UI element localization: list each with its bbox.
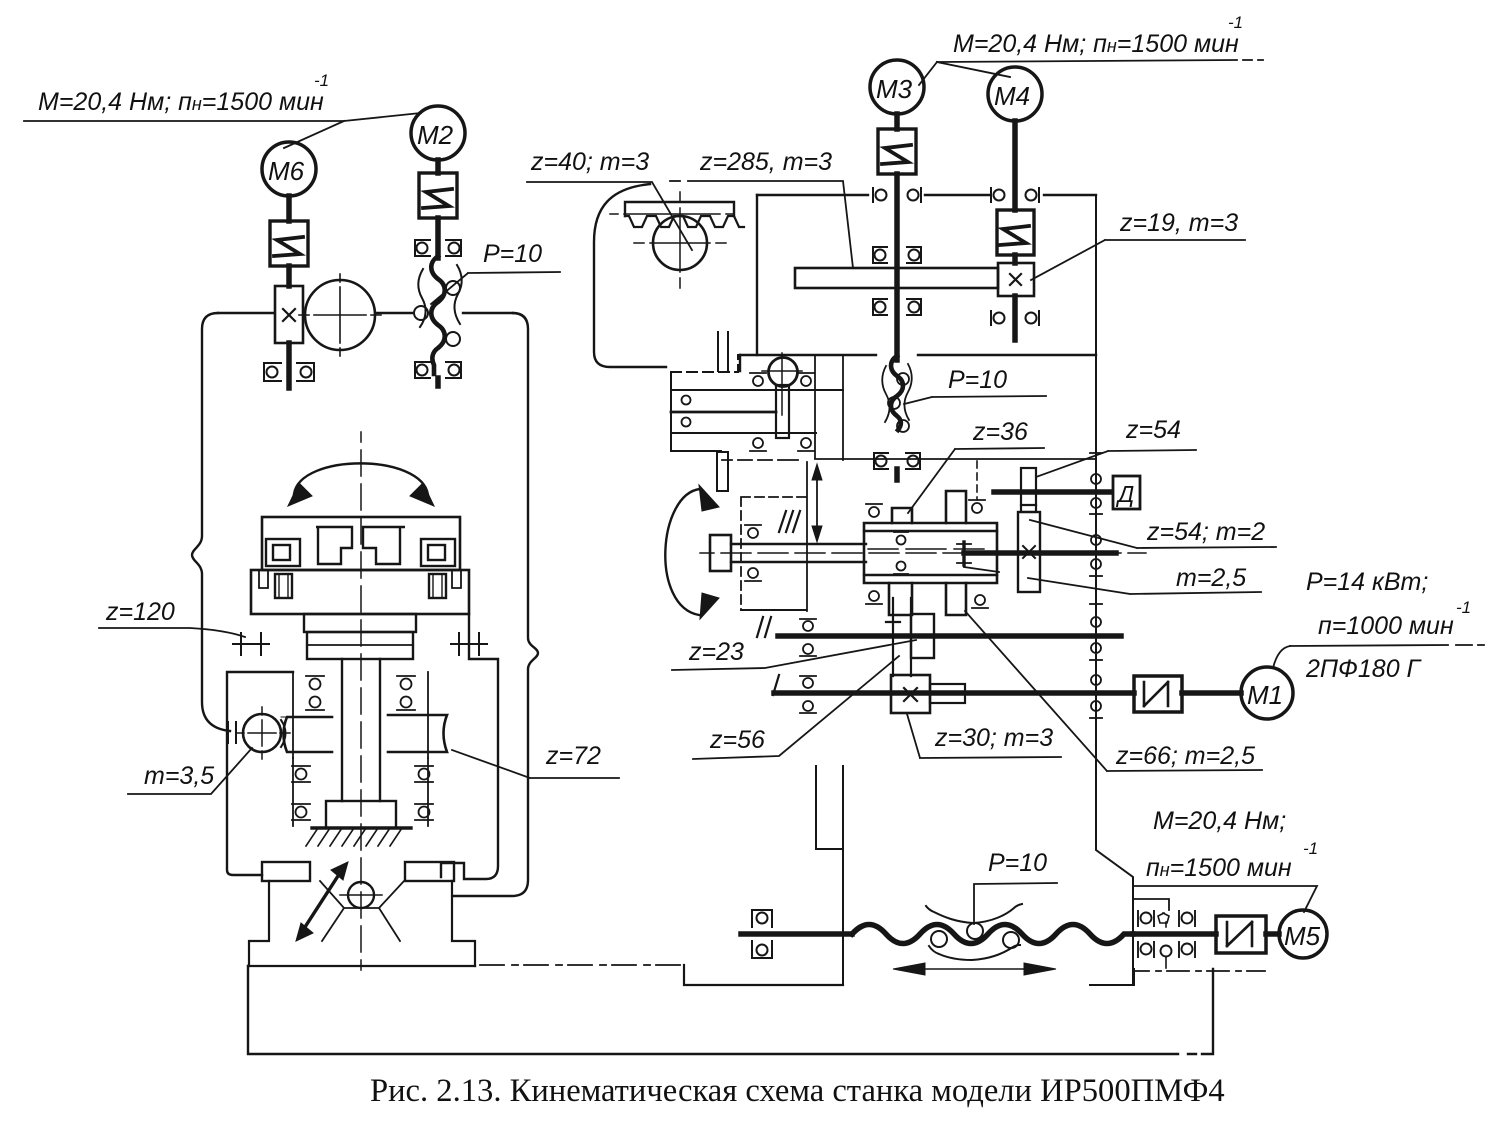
leader z=54 [1036, 450, 1196, 477]
worm end circle m=3,5 [236, 707, 290, 759]
shaft to M5 [1266, 931, 1279, 937]
rack bar z=285 (wide gear) [795, 268, 998, 288]
magazine hanging stop [717, 452, 728, 491]
svg-text:-1: -1 [314, 71, 329, 90]
column mid line y=355 [740, 354, 1096, 356]
x box on shaft I [891, 675, 965, 713]
I mark [773, 675, 779, 695]
pedestal top right block [405, 862, 454, 881]
leader M1 [1290, 645, 1484, 646]
svg-text:z=19, m=3: z=19, m=3 [1119, 209, 1238, 237]
motor M6 [262, 142, 316, 196]
bed outline [248, 966, 1213, 1054]
svg-text:М4: М4 [994, 81, 1030, 111]
clamp bolt left [275, 574, 292, 598]
spindle sleeve lines inside block [864, 531, 997, 575]
svg-text:М6: М6 [268, 156, 305, 186]
column lower verticals [816, 766, 843, 985]
pallet clamp right [421, 539, 455, 566]
svg-text:z=56: z=56 [709, 726, 765, 754]
bearing pair M4 bottom [991, 311, 1039, 325]
motor M2 [411, 106, 465, 160]
spindle housing verticals [293, 672, 428, 758]
table centerline [360, 432, 362, 970]
III shaft mark [779, 511, 800, 532]
pedestal center circle [348, 882, 374, 908]
leader z=285 [688, 181, 853, 268]
leader P=10 bottom [974, 883, 1057, 924]
bed top dash-dot middle [480, 964, 680, 966]
gear z=23 on shaft II [911, 614, 934, 658]
table spindle column [342, 659, 380, 801]
leader z=120 [99, 628, 245, 637]
leader underline M3/M4 label [937, 60, 1237, 62]
spindle shaft [731, 544, 866, 562]
bearing housing bracket [1134, 899, 1169, 910]
screw tip M3 [894, 469, 900, 480]
pallet T-slot left [316, 527, 352, 564]
X travel arrow [893, 963, 1056, 975]
bearings table spindle lower [292, 804, 433, 820]
geneva link above magazine [718, 332, 728, 371]
shaft coupling to gear box M6 [286, 266, 292, 286]
leader underline M6/M2 label [24, 113, 421, 121]
motor M4 [988, 67, 1042, 121]
leader z=19 [1031, 240, 1245, 280]
screw nut M3 [882, 364, 912, 432]
bearings table spindle upper [306, 676, 415, 710]
column top edge [757, 194, 1096, 196]
svg-text:z=23: z=23 [688, 638, 744, 666]
II mark [757, 617, 771, 637]
svg-text:Рис. 2.13. Кинематическая схем: Рис. 2.13. Кинематическая схема станка м… [370, 1073, 1225, 1109]
housing inner outline right [441, 614, 498, 879]
bearing pair M3 below rack bar [873, 299, 921, 315]
magazine bearings [750, 373, 814, 451]
svg-text:Д: Д [1115, 481, 1134, 507]
magazine outline rows [671, 355, 843, 451]
svg-text:пн=1500 мин: пн=1500 мин [1146, 854, 1292, 882]
shaft M3 long [894, 174, 900, 360]
svg-text:m=3,5: m=3,5 [144, 762, 214, 790]
table side channels [259, 571, 461, 588]
svg-text:-1: -1 [1303, 839, 1318, 858]
spindle centerline [700, 552, 1146, 554]
bearing block right (double) [1138, 911, 1195, 968]
shaft M3 [894, 114, 900, 129]
svg-text:m=2,5: m=2,5 [1176, 564, 1246, 592]
magazine guide verticals [815, 355, 843, 460]
spindle rotation arrow (big C) [665, 489, 700, 615]
X screw nut [926, 904, 1022, 960]
pallet exchange arrow [305, 876, 338, 927]
svg-text:z=40; m=3: z=40; m=3 [530, 148, 649, 176]
spindle gear block [864, 491, 997, 615]
bearings shaft II left [800, 619, 816, 656]
bearing pair M2 lower [415, 362, 461, 378]
coupling M4 [997, 210, 1034, 255]
sleeve spline detail [962, 542, 965, 565]
vertical travel arrow (headstock) [812, 464, 822, 542]
table spindle step 2 (gear z=120 hub) [307, 632, 413, 659]
svg-text:z=285, m=3: z=285, m=3 [699, 148, 832, 176]
headstock box [741, 497, 807, 610]
sensor shaft [994, 489, 1111, 495]
svg-text:М1: М1 [1247, 680, 1283, 710]
bearings shaft I left [800, 676, 816, 713]
gear block bearings [866, 500, 988, 608]
magazine index shaft circle [762, 353, 802, 438]
worm wheel z=72 left half [284, 717, 333, 752]
coupling (electromagnetic) M2 [419, 173, 457, 218]
shaft I to M1 [1182, 690, 1241, 696]
pedestal body [249, 881, 475, 966]
svg-text:М5: М5 [1284, 921, 1321, 951]
svg-text:Р=14 кВт;: Р=14 кВт; [1306, 568, 1428, 596]
svg-text:Р=10: Р=10 [988, 849, 1047, 877]
spindle drive shaft right [964, 550, 1116, 556]
bed top left segment [248, 965, 475, 967]
shaft M4 to gear [1012, 255, 1018, 263]
spindle nose block [710, 535, 731, 571]
motor M5 [1279, 910, 1327, 958]
shaft M2 coupling to screw [435, 218, 441, 258]
ground hatch [306, 828, 402, 846]
ball screw M2 (vertical wavy) [431, 256, 445, 374]
magazine small holes [682, 396, 691, 405]
hidden line to gear block [976, 461, 978, 500]
svg-text:М3: М3 [876, 74, 913, 104]
gear z=19 block (x box) [998, 263, 1034, 296]
leader M5 label [1134, 886, 1317, 912]
bottom block under spindle [326, 801, 396, 828]
pallet T-slot right [363, 527, 405, 564]
leader z=72 [452, 750, 619, 778]
pinion z=40 circle [634, 192, 726, 288]
housing outer top edge [218, 312, 513, 314]
svg-text:Р=10: Р=10 [483, 240, 542, 268]
svg-text:М=20,4 Нм; пн=1500 мин: М=20,4 Нм; пн=1500 мин [953, 30, 1239, 58]
svg-text:z=54; m=2: z=54; m=2 [1146, 518, 1265, 546]
column right edge / vertical feed shaft [1096, 195, 1133, 985]
motor M3 [870, 60, 924, 114]
leader P=10 (M3) [904, 396, 1046, 404]
worm bracket lines [281, 715, 388, 717]
bearing pair M3 above rack bar [873, 247, 921, 263]
shaft M6 to coupling [286, 196, 292, 221]
housing outer left edge with brace notch [192, 313, 230, 731]
worm shaft end ticks [228, 722, 236, 743]
leader z=40 [527, 182, 692, 250]
table spindle step 1 [304, 614, 416, 632]
gear z=54 m=2 tall [1018, 512, 1040, 592]
leader m=3,5 [128, 748, 252, 794]
pallet clamp left [266, 539, 300, 566]
rack z=285 guide bar [610, 202, 744, 227]
worm wheel z=72 right half [388, 715, 447, 752]
leader P=10 (M2) [431, 272, 560, 304]
X ball screw wavy [852, 925, 1133, 944]
gear z=120 mesh symbol right [451, 633, 487, 655]
rotation arc arrows (table) [294, 463, 428, 495]
svg-text:z=36: z=36 [972, 418, 1028, 446]
svg-text:z=30; m=3: z=30; m=3 [934, 724, 1053, 752]
gear circle on M6 axis [299, 274, 381, 356]
svg-text:М=20,4 Нм;: М=20,4 Нм; [1153, 807, 1286, 835]
shaft M4 below gear [1012, 296, 1018, 340]
bearing pair M6 bottom [264, 363, 314, 381]
bearings table spindle mid [292, 766, 433, 782]
coupling (electromagnetic) M6 [270, 221, 308, 266]
bearing bracket left of X screw [752, 910, 772, 958]
leader z=36 [908, 448, 1044, 513]
bearing pair M3 at top line [873, 188, 921, 202]
screw tip M2 [435, 378, 441, 386]
svg-text:М2: М2 [417, 120, 454, 150]
svg-text:z=54: z=54 [1125, 416, 1181, 444]
housing outer right edge with brace notch [454, 313, 538, 896]
svg-text:М=20,4 Нм; пн=1500 мин: М=20,4 Нм; пн=1500 мин [38, 88, 324, 116]
leader m=2,5 [1028, 578, 1261, 594]
ball screw M3 vertical [891, 356, 903, 430]
shaft I [774, 690, 1134, 696]
clamp bolt right [429, 574, 446, 598]
gear z=56 tall pinion [886, 598, 911, 676]
coupling box I (M5) [1216, 916, 1266, 953]
pallet rect [262, 517, 460, 570]
sliding gear block M6 (x box) [275, 286, 303, 343]
headstock bearings [745, 525, 761, 581]
X shaft left [741, 931, 852, 937]
svg-text:п=1000 мин: п=1000 мин [1318, 612, 1454, 640]
motor M1 [1241, 667, 1293, 719]
housing inner outline left [227, 672, 293, 875]
gear z=120 mesh symbol left [233, 633, 269, 655]
coupling M3 [878, 129, 916, 174]
bearing pair M4 at top line [991, 188, 1039, 202]
shaft M4 [1012, 121, 1018, 210]
coupling box I (M1) [1134, 676, 1182, 712]
leader z=56 [693, 656, 899, 759]
svg-text:2ПФ180 Г: 2ПФ180 Г [1305, 655, 1423, 683]
svg-text:-1: -1 [1456, 598, 1471, 617]
column left edge [740, 195, 757, 371]
shaft below gear box M6 [286, 343, 292, 388]
leader z=54 m=2 [1030, 520, 1276, 548]
pedestal top left block [262, 862, 310, 881]
pedestal V seat [320, 881, 404, 941]
shaft II [778, 633, 1121, 639]
X shaft right [1133, 931, 1216, 937]
svg-text:z=120: z=120 [105, 598, 175, 626]
leader z=66 [965, 611, 1262, 771]
svg-text:z=66; m=2,5: z=66; m=2,5 [1115, 742, 1255, 770]
leader z=30 [907, 714, 1061, 758]
bearing pair M3 screw bottom [874, 453, 920, 469]
horizontal line y=460 [722, 459, 1096, 460]
svg-text:Р=10: Р=10 [948, 366, 1007, 394]
leader z=23 [672, 640, 916, 670]
table body [251, 570, 469, 614]
rack housing outline [594, 184, 666, 367]
gear z=54 small [1021, 468, 1036, 512]
shaft M2 to coupling [435, 160, 441, 173]
bed right top [1133, 970, 1265, 972]
sensor box D [1113, 476, 1140, 509]
svg-text:z=72: z=72 [545, 742, 601, 770]
svg-text:-1: -1 [1228, 13, 1243, 32]
bearing pair M2 upper [415, 240, 461, 256]
screw nut M2 [414, 265, 462, 346]
bed step [684, 965, 843, 985]
ground line [312, 826, 411, 829]
